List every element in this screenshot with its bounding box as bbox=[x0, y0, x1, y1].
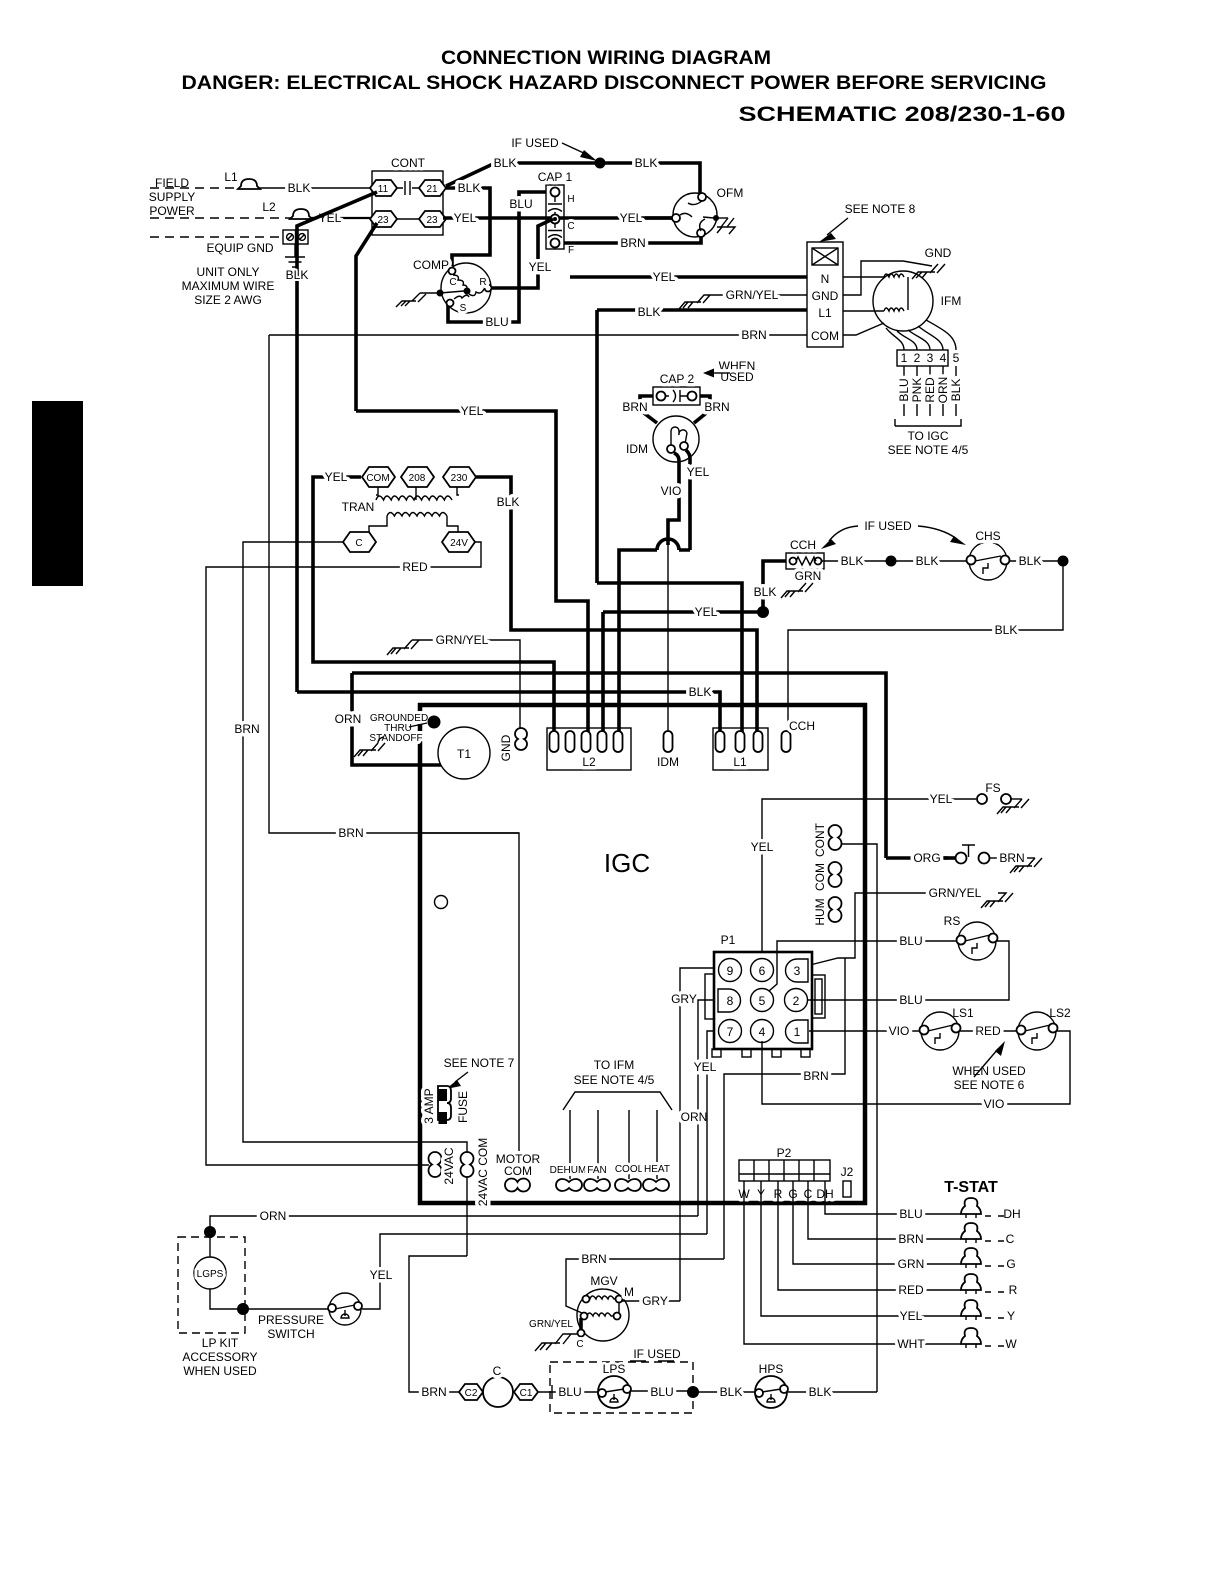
svg-text:23: 23 bbox=[377, 215, 389, 226]
wire YEL COMP-R to CAP1-C bbox=[490, 219, 553, 288]
svg-text:BLU: BLU bbox=[558, 1385, 581, 1399]
svg-text:BLU: BLU bbox=[650, 1385, 673, 1399]
wire YEL FS row to P1 pin6 bbox=[762, 799, 976, 952]
svg-text:DANGER: ELECTRICAL SHOCK HAZA: DANGER: ELECTRICAL SHOCK HAZARD DISCONNE… bbox=[182, 73, 1047, 94]
svg-text:DH: DH bbox=[1003, 1207, 1020, 1221]
com link diagonal bbox=[843, 323, 884, 335]
wire R bbox=[778, 1181, 961, 1290]
wire L2 dashed bbox=[150, 217, 292, 219]
terminal L2 bbox=[290, 209, 312, 219]
hex C1 bbox=[514, 1384, 538, 1400]
contact symbol bbox=[397, 181, 419, 195]
svg-text:FUSE: FUSE bbox=[456, 1091, 470, 1123]
svg-text:C: C bbox=[567, 221, 574, 232]
svg-text:H: H bbox=[567, 194, 574, 205]
svg-text:CHS: CHS bbox=[975, 529, 1000, 543]
svg-text:L2: L2 bbox=[262, 200, 276, 214]
svg-text:POWER: POWER bbox=[149, 204, 195, 218]
svg-text:SEE NOTE 6: SEE NOTE 6 bbox=[954, 1078, 1025, 1092]
svg-text:IF USED: IF USED bbox=[511, 136, 559, 150]
heater CCH resistor bbox=[786, 553, 824, 569]
wire hop over VIO bbox=[657, 539, 679, 550]
wire GRY pin9 to MGV M bbox=[680, 968, 714, 1301]
svg-text:FAN: FAN bbox=[587, 1165, 606, 1176]
svg-text:GND: GND bbox=[925, 246, 952, 260]
pin 24VAC COM bbox=[461, 1152, 474, 1177]
hex terminal 23 bbox=[370, 211, 397, 227]
wire GRY MGV to pin9 bbox=[622, 1300, 680, 1302]
svg-text:Y: Y bbox=[1007, 1309, 1015, 1323]
valve MGV bbox=[577, 1289, 629, 1341]
wire BRN CAP1-F to OFM bbox=[564, 237, 701, 243]
wire BRN bus to IFM COM bbox=[269, 334, 807, 336]
wire YEL bus to IFM N bbox=[570, 275, 807, 279]
svg-text:BLK: BLK bbox=[1019, 554, 1042, 568]
svg-text:BLK: BLK bbox=[809, 1385, 832, 1399]
svg-text:L1: L1 bbox=[224, 170, 238, 184]
equip gnd terminal block bbox=[283, 230, 308, 244]
hex 230 bbox=[443, 467, 476, 487]
svg-text:YEL: YEL bbox=[653, 270, 676, 284]
svg-text:BRN: BRN bbox=[620, 236, 645, 250]
LP kit dashed box bbox=[178, 1237, 245, 1333]
wire GRN/YEL to GND pin bbox=[412, 640, 520, 737]
svg-text:RED: RED bbox=[923, 377, 937, 403]
svg-text:24VAC: 24VAC bbox=[442, 1147, 456, 1184]
terminal L1 bbox=[238, 179, 260, 189]
svg-text:HPS: HPS bbox=[759, 1362, 784, 1376]
svg-text:BLK: BLK bbox=[458, 181, 481, 195]
svg-text:C: C bbox=[493, 1364, 502, 1378]
svg-text:5: 5 bbox=[953, 351, 960, 365]
wire YEL pin7 to pressure switch row bbox=[707, 1031, 714, 1234]
svg-text:EQUIP GND: EQUIP GND bbox=[206, 241, 273, 255]
svg-text:IDM: IDM bbox=[657, 755, 679, 769]
svg-text:BLK: BLK bbox=[497, 495, 520, 509]
hole bbox=[435, 896, 448, 909]
wire BLK to CONT bbox=[258, 187, 372, 189]
svg-text:IDM: IDM bbox=[626, 442, 648, 456]
svg-text:MAXIMUM WIRE: MAXIMUM WIRE bbox=[182, 279, 275, 293]
wire RED LS1 to LS2 bbox=[960, 1030, 1019, 1032]
svg-text:ORN: ORN bbox=[936, 377, 950, 404]
svg-text:BLK: BLK bbox=[720, 1385, 743, 1399]
svg-text:YEL: YEL bbox=[461, 404, 484, 418]
svg-text:SEE NOTE 4/5: SEE NOTE 4/5 bbox=[888, 443, 969, 457]
wire Y bbox=[761, 1181, 961, 1316]
wire BLK CONT21 up to top bus bbox=[446, 163, 700, 196]
svg-text:ACCESSORY: ACCESSORY bbox=[182, 1350, 257, 1364]
svg-text:L1: L1 bbox=[818, 306, 832, 320]
bracket bbox=[895, 419, 961, 426]
IF USED dashed box (LPS) bbox=[550, 1362, 693, 1413]
svg-text:BRN: BRN bbox=[234, 722, 259, 736]
wire YEL CONT23 diagonal down bbox=[356, 223, 377, 411]
svg-text:RS: RS bbox=[944, 914, 961, 928]
hex C2 bbox=[459, 1384, 483, 1400]
wire VIO LS2 to pin4 bbox=[762, 1031, 1070, 1104]
fuse bbox=[438, 1086, 451, 1120]
svg-text:GND: GND bbox=[812, 289, 839, 303]
wire YEL L2pin4 to CCH junction bbox=[603, 612, 763, 737]
svg-text:COM: COM bbox=[813, 863, 827, 891]
switch CHS bbox=[969, 542, 1007, 580]
svg-text:GRN: GRN bbox=[795, 569, 822, 583]
svg-text:LGPS: LGPS bbox=[197, 1269, 224, 1280]
svg-text:HUM: HUM bbox=[813, 898, 827, 925]
svg-text:P1: P1 bbox=[721, 933, 736, 947]
connector L1 bbox=[713, 728, 768, 770]
svg-text:24V: 24V bbox=[450, 538, 468, 549]
svg-text:CCH: CCH bbox=[790, 538, 816, 552]
svg-text:BLU: BLU bbox=[899, 993, 922, 1007]
wire BLK 230-hex to L1 pin3 bbox=[476, 477, 757, 737]
wire BLK IFM-L1 to L1 pin2 bbox=[597, 583, 742, 737]
wire between 23 23 bbox=[397, 218, 419, 220]
IGC board box bbox=[420, 705, 865, 1203]
IFM terminal block bbox=[807, 242, 843, 347]
svg-text:WHEN USED: WHEN USED bbox=[183, 1364, 257, 1378]
wire GRN/YEL pin3 bbox=[810, 893, 940, 965]
wire BLK CHS right, down, left bbox=[788, 561, 1063, 737]
svg-text:IGC: IGC bbox=[604, 848, 650, 878]
svg-text:CAP 1: CAP 1 bbox=[538, 170, 573, 184]
svg-text:YEL: YEL bbox=[751, 840, 774, 854]
junction dot YEL/BLK bbox=[757, 606, 769, 618]
svg-text:GRY: GRY bbox=[642, 1294, 668, 1308]
wire VIO IDM to IDM pin bbox=[668, 453, 679, 545]
svg-text:OFM: OFM bbox=[717, 186, 744, 200]
svg-text:GRN/YEL: GRN/YEL bbox=[529, 1319, 573, 1330]
svg-text:R: R bbox=[1009, 1283, 1018, 1297]
svg-text:YEL: YEL bbox=[529, 260, 552, 274]
gnd link wire bbox=[843, 261, 932, 295]
transformer TRAN hex COM bbox=[362, 467, 395, 487]
pressure switch bbox=[329, 1293, 361, 1325]
wire ORN to T1 bbox=[352, 673, 441, 765]
svg-text:COM: COM bbox=[504, 1164, 532, 1178]
t-stat terminal R bbox=[961, 1274, 981, 1290]
svg-text:11: 11 bbox=[378, 184, 389, 195]
svg-text:COOL: COOL bbox=[615, 1164, 644, 1175]
svg-text:YEL: YEL bbox=[900, 1309, 923, 1323]
hex terminal 23b bbox=[419, 211, 446, 227]
svg-text:ORN: ORN bbox=[260, 1209, 287, 1223]
svg-text:P2: P2 bbox=[777, 1146, 792, 1160]
hex 208 bbox=[401, 467, 434, 487]
svg-text:23: 23 bbox=[426, 215, 438, 226]
svg-text:BLU: BLU bbox=[897, 378, 911, 401]
svg-text:SWITCH: SWITCH bbox=[267, 1327, 314, 1341]
wire BRN IFM-COM vertical bbox=[269, 335, 519, 1178]
ground (ifm gnd) bbox=[912, 264, 945, 279]
wire BLK to HPS bbox=[693, 1391, 755, 1393]
svg-text:BRN: BRN bbox=[741, 328, 766, 342]
ground (comp) bbox=[396, 293, 426, 307]
inducer motor IDM bbox=[653, 416, 699, 462]
svg-text:USED: USED bbox=[720, 370, 754, 384]
svg-text:BLK: BLK bbox=[288, 181, 311, 195]
wire GRN/YEL to IFM GND bbox=[712, 294, 807, 296]
svg-text:RED: RED bbox=[898, 1283, 924, 1297]
svg-text:GRN/YEL: GRN/YEL bbox=[436, 633, 489, 647]
svg-text:UNIT ONLY: UNIT ONLY bbox=[197, 265, 260, 279]
svg-text:21: 21 bbox=[426, 184, 438, 195]
ground (grn/yel ifm) bbox=[679, 295, 712, 309]
hex terminal 21 bbox=[419, 180, 446, 196]
transformer T1 bbox=[438, 727, 490, 779]
wire DH bbox=[825, 1181, 961, 1214]
svg-text:L1: L1 bbox=[733, 755, 747, 769]
svg-text:PRESSURE: PRESSURE bbox=[258, 1313, 324, 1327]
wire YEL to OFM bbox=[645, 216, 672, 220]
svg-text:CAP 2: CAP 2 bbox=[660, 372, 695, 386]
svg-text:CONNECTION WIRING DIAGRAM: CONNECTION WIRING DIAGRAM bbox=[441, 48, 771, 69]
connector L2 bbox=[547, 728, 631, 770]
wire VIO pin1 to LS1 bbox=[809, 1030, 921, 1032]
svg-text:YEL: YEL bbox=[620, 211, 643, 225]
compressor COMP bbox=[441, 263, 491, 313]
wire BRN 24VAC-COM down to C2 bbox=[409, 1256, 467, 1392]
svg-text:M: M bbox=[624, 1285, 634, 1299]
svg-text:VIO: VIO bbox=[984, 1097, 1005, 1111]
hex C bbox=[343, 532, 376, 552]
svg-text:C: C bbox=[1006, 1232, 1015, 1246]
svg-text:CONT: CONT bbox=[813, 822, 827, 857]
wire YEL bus CONT23 horizontal bbox=[356, 411, 588, 737]
svg-text:BLK: BLK bbox=[286, 268, 309, 282]
contactor coil C bbox=[483, 1377, 513, 1407]
svg-text:2: 2 bbox=[793, 994, 800, 1008]
svg-text:L2: L2 bbox=[582, 755, 596, 769]
svg-text:VIO: VIO bbox=[661, 484, 682, 498]
connector block 1-5 bbox=[897, 350, 948, 366]
contactor CONT box bbox=[372, 171, 443, 235]
wire BLK bus to IFM L1 bbox=[597, 310, 807, 583]
svg-text:8: 8 bbox=[727, 994, 734, 1008]
svg-text:YEL: YEL bbox=[695, 605, 718, 619]
svg-text:BLK: BLK bbox=[995, 623, 1018, 637]
svg-text:PNK: PNK bbox=[910, 378, 924, 403]
svg-text:YEL: YEL bbox=[930, 792, 953, 806]
svg-text:FS: FS bbox=[985, 781, 1000, 795]
svg-text:LS1: LS1 bbox=[952, 1006, 974, 1020]
svg-text:T-STAT: T-STAT bbox=[944, 1179, 998, 1196]
blower motor IFM bbox=[873, 271, 933, 331]
t-stat terminal DH bbox=[961, 1198, 981, 1214]
svg-text:COM: COM bbox=[811, 329, 839, 343]
svg-text:GRN/YEL: GRN/YEL bbox=[929, 886, 982, 900]
svg-text:BLU: BLU bbox=[899, 934, 922, 948]
svg-text:TO IGC: TO IGC bbox=[907, 429, 948, 443]
svg-text:WHT: WHT bbox=[897, 1337, 925, 1351]
svg-text:SEE NOTE 7: SEE NOTE 7 bbox=[444, 1056, 515, 1070]
svg-text:230: 230 bbox=[451, 473, 468, 484]
switch LGPS bbox=[209, 1232, 211, 1257]
wire W bbox=[744, 1181, 961, 1344]
svg-text:YEL: YEL bbox=[694, 1060, 717, 1074]
pin CCH bbox=[782, 731, 791, 752]
svg-text:HEAT: HEAT bbox=[644, 1164, 670, 1175]
wire to LPS bbox=[537, 1391, 601, 1393]
wires to pins bbox=[570, 1110, 657, 1179]
svg-text:BRN: BRN bbox=[581, 1252, 606, 1266]
svg-text:T1: T1 bbox=[457, 747, 471, 761]
svg-text:YEL: YEL bbox=[454, 211, 477, 225]
svg-text:C1: C1 bbox=[520, 1388, 533, 1399]
svg-text:IFM: IFM bbox=[941, 294, 962, 308]
svg-text:YEL: YEL bbox=[687, 465, 710, 479]
fan out wires to plug bbox=[886, 320, 956, 350]
svg-text:DEHUM: DEHUM bbox=[550, 1165, 587, 1176]
svg-text:C: C bbox=[449, 277, 456, 288]
ground wire COMP bbox=[437, 290, 444, 297]
svg-text:RED: RED bbox=[402, 560, 428, 574]
svg-text:LPS: LPS bbox=[603, 1362, 626, 1376]
wires CAP2 to IDM bbox=[640, 396, 710, 423]
svg-text:C: C bbox=[576, 1339, 583, 1350]
inner board outline bbox=[422, 832, 519, 834]
svg-text:SCHEMATIC 208/230-1-60: SCHEMATIC 208/230-1-60 bbox=[739, 102, 1066, 126]
svg-text:BRN: BRN bbox=[898, 1232, 923, 1246]
svg-text:W: W bbox=[1005, 1337, 1017, 1351]
svg-text:G: G bbox=[1006, 1257, 1015, 1271]
junction dot IF USED bbox=[595, 158, 606, 169]
svg-text:4: 4 bbox=[940, 351, 947, 365]
svg-text:3 AMP: 3 AMP bbox=[422, 1088, 436, 1123]
svg-text:BLK: BLK bbox=[635, 156, 658, 170]
wire BLK CONT11 down-left bbox=[297, 192, 377, 692]
wire BLK CONT11 to L1 pin1 bbox=[297, 692, 720, 737]
svg-text:3: 3 bbox=[794, 964, 801, 978]
t-stat terminal W bbox=[961, 1328, 981, 1344]
svg-text:S: S bbox=[460, 303, 467, 314]
svg-text:SIZE 2 AWG: SIZE 2 AWG bbox=[194, 293, 262, 307]
wire YEL COM-hex to L2 pin1 bbox=[313, 477, 554, 737]
wire BLU CAP1-H to COMP S bbox=[448, 192, 546, 322]
svg-text:BRN: BRN bbox=[622, 400, 647, 414]
svg-text:BRN: BRN bbox=[999, 851, 1024, 865]
fan motor OFM bbox=[673, 193, 717, 237]
capacitor CAP 2 bbox=[653, 387, 700, 405]
svg-text:GRN/YEL: GRN/YEL bbox=[726, 288, 779, 302]
svg-text:COM: COM bbox=[366, 473, 389, 484]
wire C bbox=[808, 1181, 961, 1239]
wire YEL to CONT bbox=[310, 217, 372, 219]
wire BLK CCH to CHS bbox=[822, 560, 969, 562]
wire BRN pin3 down to MGV-BRN row bbox=[724, 958, 845, 1259]
t-stat terminal G bbox=[961, 1248, 981, 1264]
svg-text:RED: RED bbox=[975, 1024, 1001, 1038]
svg-text:YEL: YEL bbox=[370, 1268, 393, 1282]
wire ORN row to LGPS bbox=[210, 1216, 698, 1232]
svg-text:COMP: COMP bbox=[413, 258, 449, 272]
t-stat terminal Y bbox=[961, 1300, 981, 1316]
svg-text:SEE NOTE 8: SEE NOTE 8 bbox=[845, 202, 916, 216]
svg-text:BLK: BLK bbox=[638, 305, 661, 319]
wire BLK junction up to CCH bbox=[763, 561, 786, 612]
svg-text:VIO: VIO bbox=[889, 1024, 910, 1038]
svg-text:GND: GND bbox=[499, 734, 513, 761]
ground wire OFM bbox=[716, 217, 728, 219]
pin IDM bbox=[664, 731, 673, 752]
wire BLK HPS to CONT line bbox=[788, 1391, 877, 1393]
svg-text:LP KIT: LP KIT bbox=[202, 1336, 239, 1350]
svg-text:TO IFM: TO IFM bbox=[594, 1058, 634, 1072]
MGV C terminal + ground bbox=[579, 1318, 583, 1331]
wire RED 24V-hex to 24VAC bbox=[206, 542, 481, 1165]
pin 24VAC bbox=[429, 1152, 442, 1177]
svg-text:7: 7 bbox=[727, 1025, 734, 1039]
ground (equip) bbox=[285, 244, 305, 267]
svg-text:6: 6 bbox=[759, 964, 766, 978]
svg-text:1: 1 bbox=[901, 351, 908, 365]
wire BLU pin5 to RS bbox=[769, 941, 958, 991]
junction dot CAP1 C bbox=[553, 217, 557, 221]
wire YEL CONT23 right to CAP1-C and OFM bbox=[443, 216, 674, 220]
svg-text:CONT: CONT bbox=[391, 156, 426, 170]
svg-text:N: N bbox=[821, 272, 830, 286]
svg-text:BRN: BRN bbox=[421, 1385, 446, 1399]
svg-text:9: 9 bbox=[727, 964, 734, 978]
wire BLK CONT21 right to COMP C bbox=[446, 188, 490, 266]
wire BLU LPS to junction bbox=[631, 1390, 693, 1392]
svg-text:24VAC COM: 24VAC COM bbox=[476, 1138, 490, 1206]
svg-text:BRN: BRN bbox=[803, 1069, 828, 1083]
svg-text:BLU: BLU bbox=[509, 197, 532, 211]
svg-text:ORG: ORG bbox=[913, 851, 940, 865]
svg-text:BRN: BRN bbox=[704, 400, 729, 414]
svg-text:208: 208 bbox=[409, 473, 426, 484]
svg-text:SUPPLY: SUPPLY bbox=[149, 190, 195, 204]
secondary winding bbox=[369, 513, 458, 533]
svg-text:BLK: BLK bbox=[916, 554, 939, 568]
wire YEL pressure switch up to pin7 row bbox=[362, 1234, 707, 1309]
svg-text:F: F bbox=[568, 245, 574, 256]
svg-text:MGV: MGV bbox=[590, 1274, 617, 1288]
svg-text:C: C bbox=[355, 538, 362, 549]
wire BRN MGV row bbox=[566, 1259, 724, 1313]
wire ORN bus to ORG link bbox=[352, 673, 886, 858]
svg-text:3: 3 bbox=[927, 351, 934, 365]
svg-text:IF USED: IF USED bbox=[864, 519, 912, 533]
hex terminal 11 bbox=[370, 180, 397, 196]
wire L1 dashed bbox=[150, 187, 240, 189]
page tab (black rectangle) bbox=[32, 401, 83, 586]
svg-text:BLU: BLU bbox=[899, 1207, 922, 1221]
svg-text:R: R bbox=[479, 277, 486, 288]
wire ORN pin8 to LGPS row bbox=[698, 1000, 714, 1216]
svg-text:J2: J2 bbox=[841, 1165, 854, 1179]
fuse link ORG bbox=[886, 856, 948, 860]
wire C-hex left to 24VAC COM bbox=[243, 542, 467, 1256]
svg-text:2: 2 bbox=[914, 351, 921, 365]
svg-text:TRAN: TRAN bbox=[342, 500, 375, 514]
wire G bbox=[793, 1181, 961, 1264]
svg-text:GRY: GRY bbox=[671, 992, 697, 1006]
svg-text:BLU: BLU bbox=[485, 315, 508, 329]
coil top bbox=[843, 274, 908, 311]
svg-text:BLK: BLK bbox=[689, 685, 712, 699]
wire CONT pair down to HPS circuit bbox=[841, 844, 877, 1392]
svg-text:SEE NOTE 4/5: SEE NOTE 4/5 bbox=[574, 1073, 655, 1087]
svg-text:1: 1 bbox=[794, 1025, 801, 1039]
capacitor CAP 1 bbox=[546, 185, 564, 249]
svg-text:C2: C2 bbox=[465, 1388, 478, 1399]
svg-text:BRN: BRN bbox=[338, 826, 363, 840]
svg-text:ORN: ORN bbox=[335, 712, 362, 726]
wire BLU RS to pin2 bbox=[808, 941, 1009, 1000]
